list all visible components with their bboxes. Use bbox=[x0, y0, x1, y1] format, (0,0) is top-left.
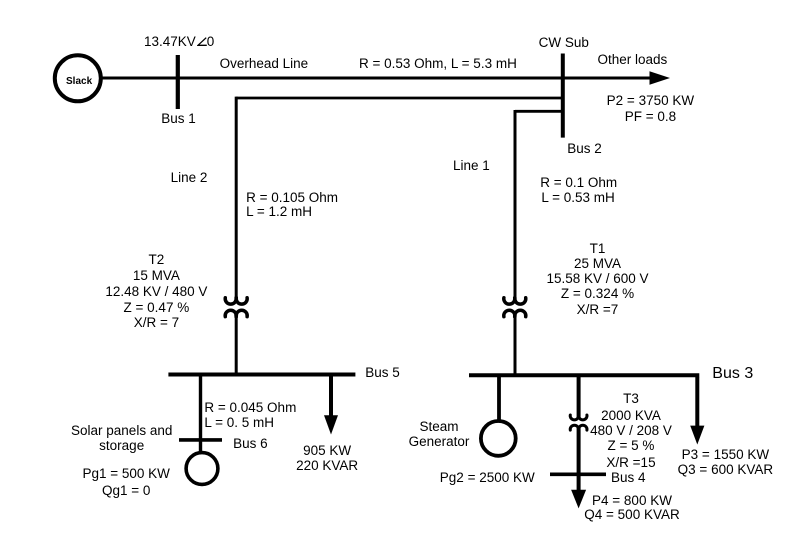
wire: Bus 5 to Bus 6 bbox=[199, 376, 202, 440]
label: Bus 3 (large) bbox=[712, 365, 753, 383]
wire: Line 2 vertical bbox=[235, 97, 238, 301]
wire: Bus 3 to steam generator bbox=[497, 377, 501, 420]
arrowhead: Other loads bbox=[650, 71, 671, 84]
label: Pg1 Qg1 bbox=[76, 466, 176, 481]
generator circle: steam generator bbox=[481, 421, 516, 456]
bus bar Bus 5 bbox=[168, 373, 355, 377]
label: line 2 impedance L bbox=[246, 204, 312, 219]
label: Bus 5 bbox=[365, 365, 400, 380]
label: slack generator bbox=[66, 76, 92, 88]
label: load 905 KW bbox=[277, 443, 377, 458]
transformer T3 bbox=[570, 415, 587, 430]
label: load PF bbox=[600, 109, 700, 124]
label: Bus 2 bbox=[567, 141, 602, 156]
label block: transformer T2 ratings bbox=[96, 252, 216, 267]
load arrow P3 at Bus 3 bbox=[690, 377, 704, 445]
label: bus6 feeder impedance R bbox=[204, 400, 296, 415]
label: Pg2 bbox=[440, 470, 535, 485]
label: Bus 6 bbox=[233, 436, 268, 451]
label: load P4 Q4 bbox=[572, 493, 692, 508]
label: bus6 feeder impedance L bbox=[204, 415, 274, 430]
bus bar Bus 1 bbox=[176, 55, 180, 109]
label: line 1 impedance R bbox=[540, 175, 617, 190]
label: Overhead Line bbox=[220, 56, 309, 71]
wire: T1 to Bus 3 bbox=[514, 312, 517, 378]
wire: Bus 3 to T3 bbox=[577, 377, 581, 418]
label: Other loads bbox=[598, 52, 668, 67]
label: load P3 Q3 bbox=[665, 447, 785, 462]
label: CW Sub bbox=[539, 35, 589, 50]
label: solar panels and storage bbox=[62, 423, 182, 438]
wire: Bus2 to Line 1 horizontal bbox=[515, 110, 562, 113]
label block: transformer T3 ratings bbox=[571, 391, 691, 406]
wire: Bus 6 to solar generator bbox=[199, 441, 202, 453]
bus bar Bus 6 bbox=[179, 438, 222, 442]
label: overhead line impedance bbox=[359, 56, 517, 71]
label: bus 1 voltage 13.47KV angle 0 bbox=[144, 34, 214, 49]
label: Line 1 bbox=[453, 158, 490, 173]
wire: T2 to Bus 5 bbox=[235, 312, 238, 377]
bus bar Bus 2 bbox=[561, 54, 565, 138]
load arrow 905 KW at Bus 5 bbox=[324, 376, 338, 435]
wire: overhead line Bus1 to Bus2 bbox=[101, 77, 650, 80]
label: Bus 1 bbox=[161, 111, 196, 126]
bus bar Bus 4 bbox=[550, 472, 606, 476]
transformer T1 bbox=[504, 298, 526, 317]
label block: transformer T1 ratings bbox=[538, 241, 658, 256]
label: load P2 bbox=[600, 93, 700, 108]
generator circle: solar panels and storage bbox=[186, 453, 218, 485]
load arrowhead P4 at Bus 4 bbox=[571, 490, 586, 509]
wire: T3 to Bus 4 and load arrow shaft bbox=[577, 426, 581, 492]
label: Bus 4 bbox=[611, 470, 646, 485]
bus bar Bus 3 bbox=[469, 373, 699, 377]
label: steam generator bbox=[389, 419, 489, 434]
wire: Bus2 to Line 2 horizontal bbox=[236, 97, 562, 100]
transformer T2 bbox=[225, 298, 247, 317]
label: line 1 impedance L bbox=[541, 190, 614, 205]
label: Line 2 bbox=[171, 170, 208, 185]
wire: Line 1 vertical bbox=[514, 110, 517, 301]
generator circle: slack bbox=[55, 55, 101, 101]
label: line 2 impedance R bbox=[246, 190, 338, 205]
